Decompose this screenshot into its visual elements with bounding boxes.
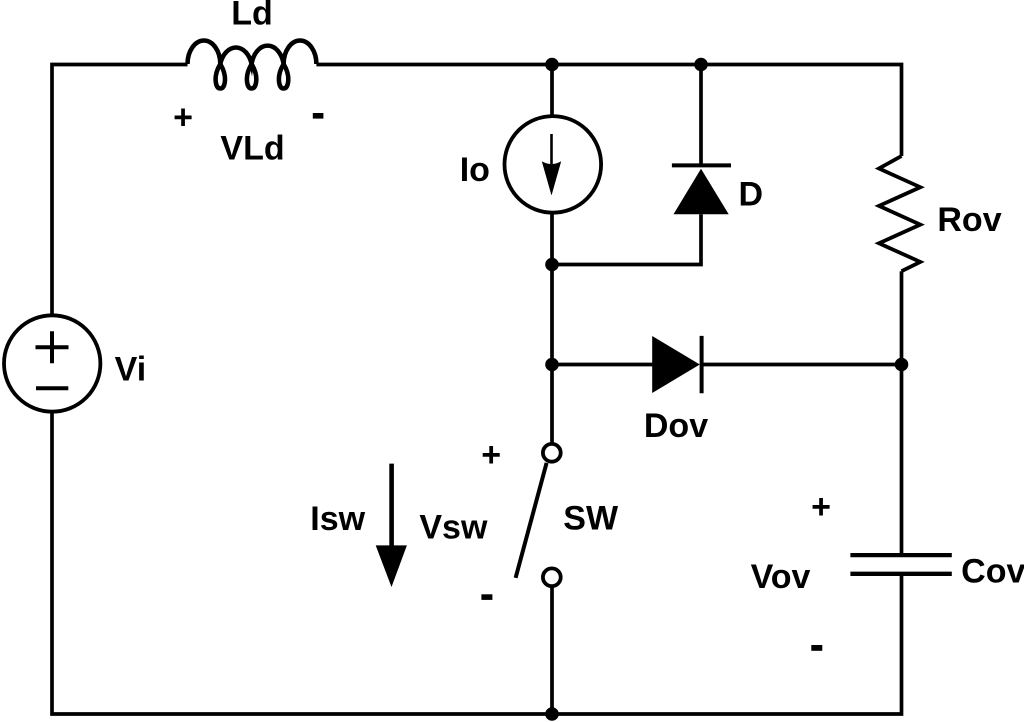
svg-text:Vsw: Vsw [419, 508, 488, 546]
svg-text:Io: Io [460, 151, 490, 189]
svg-text:SW: SW [563, 499, 619, 537]
svg-text:+: + [811, 488, 831, 526]
svg-text:Dov: Dov [644, 407, 708, 445]
svg-text:+: + [173, 99, 193, 137]
svg-text:VLd: VLd [220, 129, 284, 167]
svg-text:Ld: Ld [231, 0, 273, 33]
svg-text:Isw: Isw [310, 500, 365, 538]
svg-text:D: D [739, 176, 764, 214]
svg-text:Vov: Vov [751, 558, 811, 596]
svg-text:+: + [481, 436, 501, 474]
svg-text:Cov: Cov [961, 552, 1024, 590]
svg-text:Rov: Rov [937, 201, 1001, 239]
svg-text:Vi: Vi [115, 350, 147, 388]
